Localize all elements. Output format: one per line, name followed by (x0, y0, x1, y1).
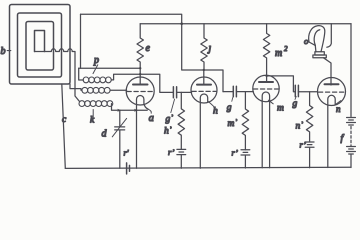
svg-text:m: m (275, 48, 282, 59)
wire : a leader (148, 109, 151, 113)
svg-text:rʹ: rʹ (124, 148, 129, 158)
wire : horizontal to tube 1 plate (79, 67, 141, 69)
svg-text:c: c (62, 115, 67, 125)
wire : h leader (208, 102, 213, 107)
battery r1 (in bottom rail) (127, 163, 130, 174)
wire : to tube 2 grid (177, 91, 192, 93)
resistor e with leads to tube 1 plate (137, 24, 143, 85)
svg-text:a: a (149, 113, 154, 124)
svg-text:g: g (293, 99, 298, 109)
tube n (4th audion) (318, 78, 346, 168)
junction dots (139, 22, 268, 77)
wire : frame top line to stage-2 drop (81, 14, 224, 91)
battery r (stage 2 bias) (177, 149, 186, 168)
svg-text:f: f (341, 133, 345, 144)
wire : stage 4 branch from tube 3 plate (267, 76, 296, 92)
resistor j with lead to plate line (201, 24, 207, 70)
wire : B+ top rail (140, 23, 351, 25)
wire : loop outer end down to bottom rail (62, 84, 66, 168)
svg-text:mʾ: mʾ (228, 118, 238, 129)
junction arrow at capacitor d tap (117, 109, 121, 112)
wire : g leader (295, 96, 296, 99)
resistor h' (grid leak) (178, 92, 184, 149)
wire : to tube 3 grid (223, 91, 253, 93)
wire : tube 2 plate drop (203, 70, 205, 85)
svg-text:gʾ: gʾ (166, 114, 174, 125)
resistor m' (grid leak) (242, 92, 248, 150)
loop antenna turn 2 (18, 13, 62, 77)
phone o (telephone receiver) (309, 24, 332, 58)
coil k (bottom) (79, 101, 113, 107)
wire : coil k right lead to filament line (112, 104, 148, 111)
wire : tube 1 filament to bottom rail (136, 110, 138, 168)
wire : T1 corner to grid coil c (70, 84, 82, 90)
wire : n leader (335, 101, 341, 105)
wire : p leader (93, 65, 98, 74)
capacitor g (coupling, stage 4) (295, 85, 298, 96)
wire : phone to tube 4 plate (324, 58, 332, 85)
svg-text:b: b (1, 46, 6, 57)
wire : frame left edge (80, 14, 82, 68)
svg-text:h: h (213, 107, 218, 117)
tube m (3rd audion) (253, 75, 279, 168)
capacitor d (variable tuning) (115, 110, 125, 168)
wire : loop inner end with crossover bumps (35, 49, 80, 102)
svg-text:r’: r’ (168, 147, 175, 157)
wire : coil p left stub (79, 68, 84, 80)
svg-text:m: m (277, 104, 284, 114)
svg-text:e: e (146, 43, 151, 54)
battery r (stage 3 bias) (241, 150, 250, 168)
svg-text:2: 2 (284, 45, 288, 53)
wire : coil c right lead to tube 1 grid (110, 89, 127, 91)
coil p (tickler) (83, 77, 111, 83)
wire : k leader (92, 110, 94, 118)
capacitor g (coupling, stage 3) (233, 86, 236, 97)
wire : coil p right lead to plate node (111, 74, 173, 92)
wire : g leader (231, 98, 234, 102)
svg-text:d: d (102, 129, 108, 140)
wire : g' leader (171, 99, 175, 113)
tube h (2nd audion) (191, 77, 217, 168)
loop antenna turn 4 (inner) (35, 31, 45, 52)
svg-text:p: p (93, 55, 99, 66)
svg-text:hʾ: hʾ (164, 126, 172, 137)
svg-text:k: k (90, 116, 95, 126)
capacitor g' (coupling, stage 2) (173, 87, 176, 98)
svg-text:g: g (227, 103, 232, 113)
resistor m2 with lead to tube 3 plate (263, 24, 269, 82)
wire : bottom rail (65, 167, 351, 168)
resistor n' (grid leak) (306, 92, 312, 142)
wire : m leader (268, 100, 273, 104)
wire : d arrow (112, 118, 126, 136)
wire : to tube 4 grid (298, 91, 317, 93)
svg-text:r’: r’ (300, 140, 307, 150)
battery r (stage 4 bias) (305, 142, 314, 168)
loop antenna b : outer turn (10, 5, 71, 85)
battery f (right edge B battery) (350, 24, 352, 117)
tube a (1st audion) (126, 77, 154, 110)
svg-text:o: o (304, 36, 308, 46)
svg-text:nʾ: nʾ (296, 121, 304, 132)
coil c (grid coil, middle) (82, 87, 110, 93)
loop antenna turn 3 (26, 22, 54, 71)
junction arrow at tube 1 filament tap (134, 109, 138, 112)
svg-text:r’: r’ (232, 148, 239, 158)
wire : b label dash (7, 50, 11, 52)
svg-text:n: n (336, 104, 341, 114)
